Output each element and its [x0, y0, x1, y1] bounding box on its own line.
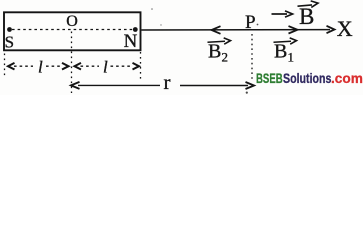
svg-text:B: B [274, 41, 287, 63]
dotted vertical below right edge of magnet [140, 52, 142, 80]
dotted vertical below P [251, 34, 253, 80]
dotted vertical below centre O [71, 32, 73, 94]
svg-text:1: 1 [288, 50, 295, 65]
B1 arrowhead on axis (rightward) [289, 26, 298, 33]
r dimension arrow [71, 82, 80, 89]
left half-length dimension arrow [8, 63, 15, 70]
watermark BSEBSolutions.com [0, 69, 1, 71]
svg-text:X: X [337, 16, 353, 41]
svg-text:l: l [38, 58, 43, 77]
pole dot S end [7, 27, 12, 32]
vector arrow over B [298, 5, 313, 6]
svg-text:2: 2 [222, 50, 229, 65]
dotted vertical below left edge of magnet [4, 54, 6, 78]
pole dot N end [133, 27, 138, 32]
axis arrowhead [327, 26, 335, 33]
svg-text:N: N [124, 31, 138, 52]
bar magnet body [4, 12, 141, 50]
magnet axis dashed line [12, 29, 133, 31]
scan speck [257, 24, 259, 26]
svg-text:r: r [164, 70, 171, 94]
scan speck [246, 92, 248, 94]
svg-text:P: P [245, 12, 256, 33]
svg-text:O: O [66, 13, 78, 30]
svg-text:B: B [208, 41, 221, 63]
right half-length dimension arrow [75, 63, 82, 70]
arrow before B (net field direction) [272, 13, 288, 15]
scan speck [160, 24, 161, 25]
svg-text:l: l [103, 58, 108, 77]
svg-text:S: S [5, 33, 14, 52]
B2 arrowhead on axis (leftward) [212, 26, 221, 34]
scan speck [151, 8, 153, 10]
axis line to X [142, 29, 331, 31]
